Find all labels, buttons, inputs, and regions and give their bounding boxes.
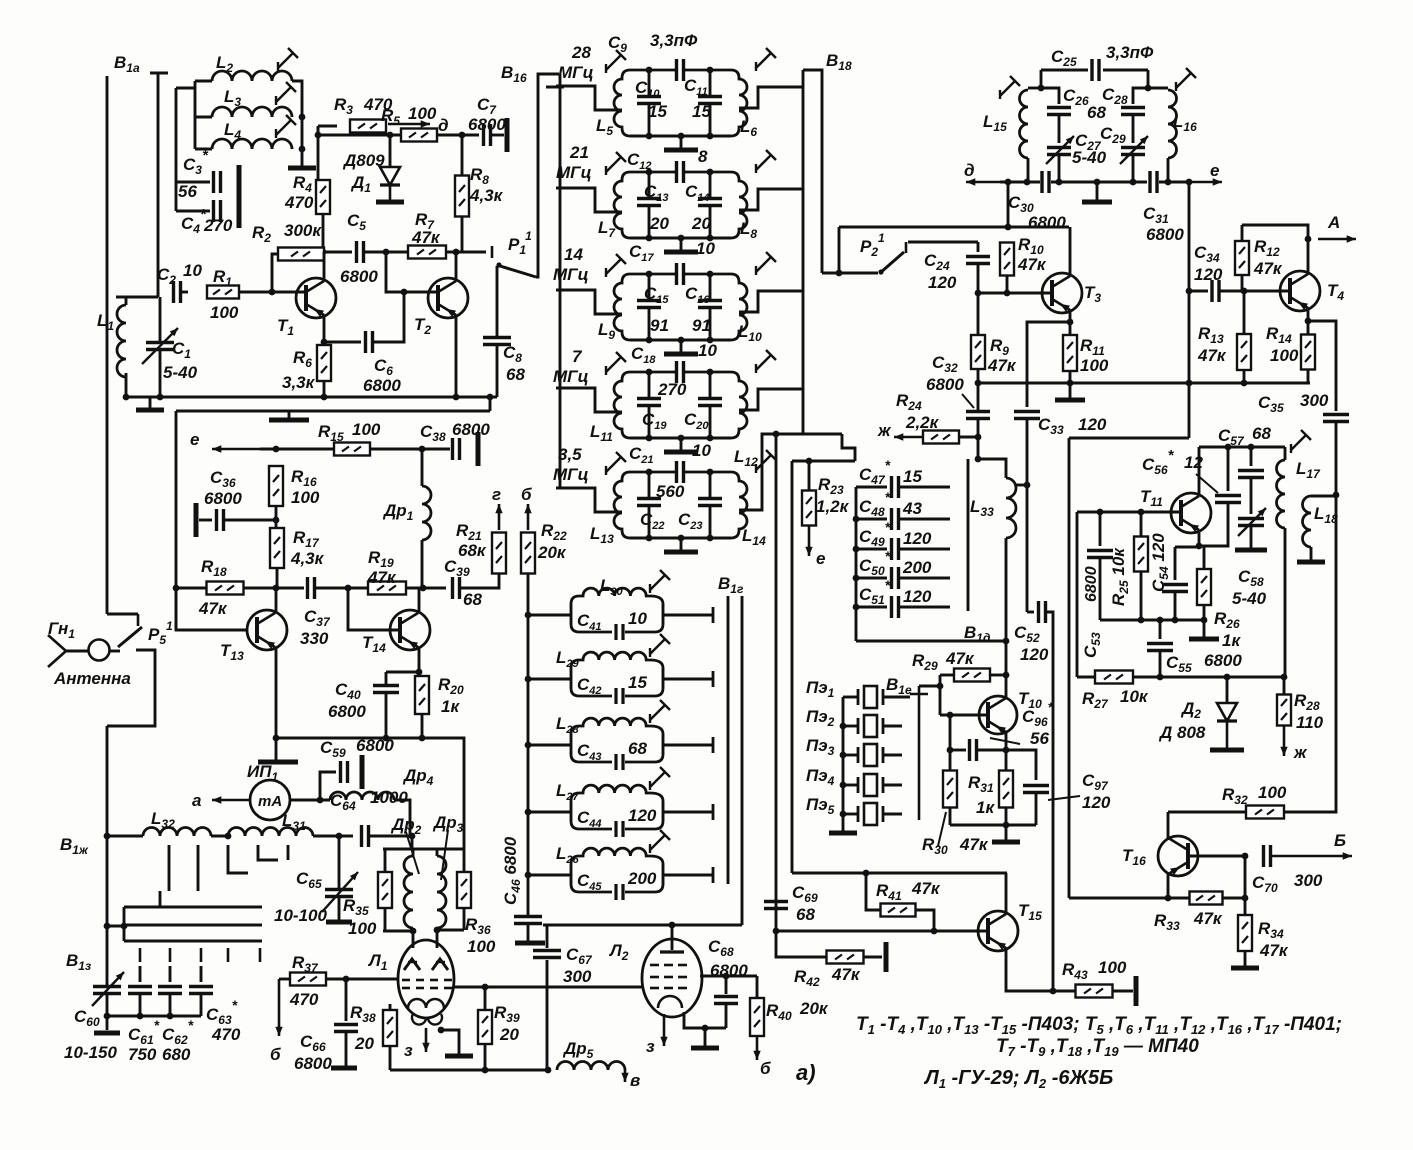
wire Dr4 right xyxy=(394,800,410,835)
label R36 100 xyxy=(465,915,496,956)
wire C8 top xyxy=(496,266,499,337)
svg-text:470: 470 xyxy=(211,1025,241,1044)
label R18 47k xyxy=(198,557,228,618)
capacitor C18 (top coupling) xyxy=(677,361,684,383)
resistor R23 xyxy=(802,491,816,526)
wire Pe4 left lead xyxy=(843,784,858,787)
inductor L11 (left coil of 7MHz tank) xyxy=(614,372,630,438)
wire C68 top lead xyxy=(725,976,728,994)
resistor R11 xyxy=(1063,335,1077,371)
capacitor C26 xyxy=(1047,108,1071,115)
label L1 tube xyxy=(367,951,388,973)
junction base-C70 xyxy=(1242,853,1249,860)
inductor L2 xyxy=(212,71,292,81)
capacitor C46 xyxy=(514,917,542,924)
label g xyxy=(492,485,501,504)
wire C34 row xyxy=(1189,290,1208,293)
wire C61 bottom xyxy=(139,994,142,1016)
wire C47 right lead xyxy=(899,486,950,489)
junction Pe bus 5 xyxy=(840,811,847,818)
junction C55-R27 xyxy=(1157,674,1164,681)
wire Pe3 left lead xyxy=(843,754,858,757)
wire C67 bottom xyxy=(546,960,549,1070)
value C48 43 xyxy=(902,499,922,518)
capacitor C30 xyxy=(1042,171,1049,193)
label C18 10 xyxy=(631,341,717,366)
junction C23 top xyxy=(707,469,714,476)
junction C55 bus xyxy=(1157,617,1164,624)
resistor R41 xyxy=(881,904,916,917)
wire grid bus right xyxy=(437,929,464,932)
wire T3 supply left drop xyxy=(838,227,841,273)
label C62 680 xyxy=(162,1017,194,1064)
resistor R9 xyxy=(971,335,985,369)
junction R33-R34 xyxy=(1242,895,1249,902)
label Pe1 xyxy=(806,678,835,700)
label T13 xyxy=(220,641,244,663)
wire Dr1 top lead xyxy=(421,449,424,486)
svg-text:3,3пФ: 3,3пФ xyxy=(650,31,698,50)
wire mid ground stub xyxy=(1096,182,1099,200)
junction bus T2e xyxy=(453,394,460,401)
label C31 6800 xyxy=(1143,204,1184,244)
trimmer mark L2 xyxy=(278,48,298,71)
trimmer arrow C29 xyxy=(1120,136,1148,164)
junction bank C48 xyxy=(853,516,860,523)
caption line 1 xyxy=(856,1014,1342,1037)
contact dash 1 xyxy=(139,948,142,962)
svg-text:28: 28 xyxy=(571,43,591,62)
resistor R22 xyxy=(521,533,535,574)
inductor L27 (trap coil) xyxy=(571,785,663,801)
wire R14 leads xyxy=(1307,321,1310,334)
tube L1 envelope xyxy=(398,940,454,1018)
capacitor C19 xyxy=(637,399,661,406)
inductor L18 xyxy=(1303,496,1312,547)
wire C24 bottom xyxy=(977,264,980,293)
junction bank C50 xyxy=(853,575,860,582)
ground tank 7MHz xyxy=(664,450,698,455)
label 3.5 MHz xyxy=(553,445,589,484)
junction L17-R28 xyxy=(1281,674,1288,681)
wire R9 top xyxy=(977,293,980,335)
trimmer mark L16 xyxy=(1176,68,1196,91)
transistor T16 xyxy=(1158,836,1198,876)
svg-text:6800: 6800 xyxy=(363,376,401,395)
resistor R14 xyxy=(1301,335,1315,370)
wire C53 bottom xyxy=(1099,558,1102,620)
svg-text:6800: 6800 xyxy=(468,115,506,134)
label Pe2 xyxy=(806,707,835,729)
junction bank C51 xyxy=(853,604,860,611)
ground under bus411 xyxy=(269,418,309,423)
wire C60 bottom xyxy=(106,994,109,1030)
svg-text:1000: 1000 xyxy=(370,788,408,807)
wire C32 bottom xyxy=(977,419,980,437)
capacitor C41 (trap cap) xyxy=(571,624,663,632)
ground C58 xyxy=(1235,548,1267,553)
svg-text:100: 100 xyxy=(1270,346,1299,365)
junction R8 top xyxy=(459,132,466,139)
wire L1 top xyxy=(116,296,158,299)
resistor R40 xyxy=(750,998,764,1036)
trimmer mark L15 xyxy=(1000,76,1020,99)
capacitor C57 xyxy=(1238,471,1264,478)
svg-text:120: 120 xyxy=(903,529,932,548)
junction L26 stub xyxy=(525,872,532,879)
label L7 xyxy=(598,218,616,240)
wire T15 emitter xyxy=(1006,948,1057,991)
wire R36 top xyxy=(463,849,466,872)
wire C54 row xyxy=(1175,546,1199,549)
wire tank 14MHz left stub xyxy=(556,290,622,314)
inductor L3 xyxy=(212,107,292,117)
wire C55 bottom xyxy=(1159,651,1162,677)
wire C10 lead xyxy=(648,70,651,96)
wire Pe4 right lead xyxy=(883,784,902,787)
wire C50 right lead xyxy=(899,577,950,580)
wire R12 bottom xyxy=(1241,275,1244,291)
label T15 xyxy=(1018,901,1042,923)
wire T4 feed drop xyxy=(1188,182,1191,438)
wire C49 left lead xyxy=(856,548,887,551)
wire R36 bottom xyxy=(463,908,466,930)
junction C22 top xyxy=(646,469,653,476)
label D808 xyxy=(1158,723,1206,742)
svg-text:100: 100 xyxy=(408,104,437,123)
junction T13 collector node xyxy=(273,585,280,592)
resistor R35 xyxy=(378,872,392,908)
label D809 xyxy=(342,151,385,170)
wire T16 base row xyxy=(1188,855,1245,858)
wire R25 bottom xyxy=(1140,571,1143,620)
arrow z cathode L2 xyxy=(660,1014,667,1046)
wire R43 right xyxy=(1113,990,1133,993)
svg-text:47к: 47к xyxy=(411,228,441,247)
wire C36 right lead xyxy=(224,519,276,522)
band filter tank 14MHz outline top edge xyxy=(630,273,731,276)
trimmer mark L17 xyxy=(1291,430,1311,453)
svg-text:МГц: МГц xyxy=(553,465,589,484)
label R37 470 xyxy=(289,953,319,1009)
capacitor C40 xyxy=(373,686,399,693)
wire Dr2 bottom xyxy=(412,928,415,948)
svg-text:120: 120 xyxy=(628,806,657,825)
capacitor C37 xyxy=(308,577,315,599)
wire R33 leads xyxy=(1168,897,1190,900)
wire L26 left edge xyxy=(570,864,573,884)
capacitor C5 xyxy=(357,241,364,263)
svg-text:г: г xyxy=(492,485,501,504)
capacitor C44 (trap cap) xyxy=(571,821,663,829)
label C16 xyxy=(685,284,710,306)
label L32 xyxy=(151,809,175,831)
junction R41 top xyxy=(863,870,870,877)
svg-text:47к: 47к xyxy=(198,599,228,618)
svg-text:Б: Б xyxy=(1334,831,1346,850)
inductor L9 (left coil of 14MHz tank) xyxy=(614,274,630,340)
wire R14 bottom xyxy=(1307,369,1310,383)
capacitor C42 (trap cap) xyxy=(571,688,663,696)
junction C40 bottom xyxy=(383,735,390,742)
wire C30 drop xyxy=(1007,182,1010,227)
label C70 300 xyxy=(1252,871,1323,895)
wire de bus 1 xyxy=(1000,181,1040,184)
junction R11 gnd xyxy=(1067,380,1074,387)
wire T2 base xyxy=(386,252,438,292)
wire L15 bottom lead xyxy=(1027,158,1030,182)
wire L3 lead xyxy=(195,116,212,119)
wire T10 emitter xyxy=(1005,732,1008,750)
svg-text:330: 330 xyxy=(300,629,329,648)
svg-text:300: 300 xyxy=(563,967,592,986)
resistor R8 xyxy=(455,176,469,217)
wire supply bus y411 xyxy=(176,410,490,413)
contact tick L29 xyxy=(712,671,715,687)
wire L30 left edge xyxy=(570,604,573,624)
value C15 91 xyxy=(650,316,669,335)
capacitor C27 trimmer xyxy=(1047,148,1071,155)
wire C1 bottom xyxy=(159,350,162,397)
ground R34 xyxy=(1231,966,1259,971)
feedthrough plate C3 xyxy=(237,165,242,199)
value C41 10 xyxy=(628,609,647,628)
junction Dr1 bottom node xyxy=(420,585,427,592)
wire 7MHz tank bottom edge xyxy=(630,437,731,440)
junction T2 base xyxy=(401,289,408,296)
label L5 xyxy=(596,116,613,138)
svg-text:б: б xyxy=(270,1045,281,1064)
label R4 xyxy=(293,173,312,195)
label L2 xyxy=(216,53,233,75)
contact tick L27 xyxy=(712,804,715,820)
wire R11 leads xyxy=(1069,322,1072,335)
label R38 xyxy=(350,1003,376,1025)
wire C11 bottom lead xyxy=(709,104,712,136)
label a) xyxy=(796,1060,816,1085)
junction x776 xyxy=(773,431,780,438)
wire T4 emitter xyxy=(1307,308,1310,321)
label C12 8 xyxy=(627,147,708,172)
capacitor C25 xyxy=(1092,59,1099,81)
svg-text:10к: 10к xyxy=(1120,687,1149,706)
value C11 15 xyxy=(692,102,711,121)
resistor R24 xyxy=(923,431,959,444)
junction L30 stub xyxy=(525,612,532,619)
svg-text:з: з xyxy=(646,1037,655,1056)
feedthrough plate C59 xyxy=(360,755,365,789)
junction L2 anode xyxy=(669,922,676,929)
ground T3 emitter xyxy=(1055,398,1085,403)
wire T2 collector xyxy=(455,252,458,281)
trimmer mark L13 xyxy=(606,452,626,475)
label C29 xyxy=(1100,124,1126,146)
ground tank 28MHz xyxy=(664,148,698,153)
wire de bus 2 xyxy=(1051,181,1147,184)
svg-text:56: 56 xyxy=(178,182,197,201)
svg-text:15: 15 xyxy=(692,102,711,121)
wire bank left bus xyxy=(855,487,858,641)
svg-text:47к: 47к xyxy=(1259,941,1289,960)
svg-text:Антенна: Антенна xyxy=(53,669,131,688)
label R3 xyxy=(334,95,353,117)
wire T13 emitter xyxy=(275,648,278,738)
junction bus-P2 xyxy=(836,270,843,277)
capacitor C62* xyxy=(158,987,182,994)
wire Pe1 right lead xyxy=(883,696,910,699)
wire R38 bottom xyxy=(389,1046,392,1070)
switch P1 xyxy=(456,246,536,277)
wire anode top wire xyxy=(543,924,742,927)
resistor R19 xyxy=(368,582,406,595)
wire L18 bottom xyxy=(1310,547,1313,560)
tube L2 envelope xyxy=(642,939,702,1017)
label zh under R28 xyxy=(1293,743,1308,762)
capacitor C68 xyxy=(714,997,738,1004)
label Pe4 xyxy=(806,766,835,788)
capacitor C51* xyxy=(892,596,899,618)
capacitor C11 xyxy=(698,97,722,104)
junction R24 node xyxy=(975,434,982,441)
junction T4 emitter xyxy=(1305,318,1312,325)
wire Pe1 left lead xyxy=(843,696,858,699)
wire L1 leads xyxy=(125,297,128,305)
wire C28-C29 xyxy=(1132,115,1135,143)
label L29 xyxy=(556,648,580,670)
label R20 1k xyxy=(438,675,464,716)
feedthrough R43 xyxy=(1134,976,1139,1006)
arrow to e (R15 row) xyxy=(212,445,260,452)
svg-text:ж: ж xyxy=(877,421,892,440)
transistor T4 xyxy=(1280,271,1320,311)
capacitor C59 xyxy=(341,761,348,783)
wire L1 bottom xyxy=(125,373,128,397)
svg-text:270: 270 xyxy=(657,380,687,399)
label C50 xyxy=(859,548,891,578)
wire B1a left bus vertical xyxy=(106,76,109,614)
wire L2 anode lead xyxy=(671,925,674,950)
wire tank 28MHz ground stub xyxy=(680,136,683,148)
arrow to b (R22) xyxy=(524,504,531,530)
wire T11 emitter xyxy=(1198,530,1201,546)
choke Dr4 xyxy=(330,792,394,800)
switch P5 xyxy=(118,614,142,647)
junction C62 rail xyxy=(167,1013,174,1020)
capacitor C49* xyxy=(892,538,899,560)
label R8 xyxy=(470,165,489,187)
arrow to b (R37) xyxy=(275,979,282,1036)
junction R16 top xyxy=(273,446,280,453)
junction L33 tap xyxy=(1024,482,1031,489)
capacitor C20 xyxy=(698,399,722,406)
wire R16 bottom xyxy=(275,506,278,528)
svg-text:6800: 6800 xyxy=(1146,225,1184,244)
ground C46 xyxy=(515,941,545,946)
value R5 100 xyxy=(408,104,437,123)
wire L26 left stub xyxy=(528,874,571,877)
wire R1 to T1 base xyxy=(239,291,306,294)
transistor T2 xyxy=(428,278,468,318)
wire C54 bottom xyxy=(1174,592,1177,620)
svg-text:20к: 20к xyxy=(799,999,829,1018)
wire tank right stub xyxy=(739,189,803,210)
wire L27 right edge xyxy=(662,801,665,821)
capacitor C14 xyxy=(698,199,722,206)
wire C29 bottom xyxy=(1132,155,1135,182)
svg-text:МГц: МГц xyxy=(558,63,594,82)
label C49 xyxy=(859,519,891,549)
svg-text:120: 120 xyxy=(1078,415,1107,434)
svg-text:Т7 -Т9 ,Т18 ,Т19 — МП40: Т7 -Т9 ,Т18 ,Т19 — МП40 xyxy=(996,1036,1199,1059)
value C1 5-40 xyxy=(163,363,198,382)
junction B1z xyxy=(104,923,111,930)
junction C34 feed xyxy=(1186,288,1193,295)
junction T4 feed xyxy=(1186,179,1193,186)
label C66 6800 xyxy=(294,1032,332,1073)
wire right drop xyxy=(1147,70,1150,88)
resistor R18 xyxy=(207,582,244,595)
capacitor C13 xyxy=(637,199,661,206)
wire C4 lead xyxy=(176,210,210,213)
junction C67 rail xyxy=(545,1067,552,1074)
ground twin tank xyxy=(1082,200,1112,205)
svg-text:100: 100 xyxy=(1080,356,1109,375)
wire P5 out contact xyxy=(107,650,155,726)
leader Dr3 xyxy=(441,830,448,880)
wire L30 right edge xyxy=(662,604,665,624)
arrow zh down xyxy=(1280,726,1287,756)
wire gnd stub xyxy=(1069,383,1072,398)
wire C35 bottom xyxy=(1335,422,1338,495)
trimmer mark L6 xyxy=(756,48,776,71)
wire C16 bottom lead xyxy=(709,308,712,340)
capacitor C66 xyxy=(334,1025,358,1032)
wire R30 bottom xyxy=(949,808,952,825)
svg-text:68: 68 xyxy=(1087,103,1106,122)
junction C19 top xyxy=(646,369,653,376)
label C15 xyxy=(644,284,669,306)
resistor R37 xyxy=(290,973,326,986)
label C33 120 xyxy=(1038,415,1107,437)
junction C30 drop xyxy=(1005,179,1012,186)
trimmer arrow C1 xyxy=(142,328,178,364)
junction C15 top xyxy=(646,271,653,278)
label 28 MHz xyxy=(558,43,594,82)
wire C14 lead xyxy=(709,172,712,198)
wire C26-C27 xyxy=(1058,115,1061,143)
junction L32/L31 xyxy=(225,833,232,840)
junction L28 stub xyxy=(525,742,532,749)
label Dr2 xyxy=(390,815,422,837)
node B1zh label xyxy=(60,835,89,857)
svg-text:1,2к: 1,2к xyxy=(816,497,850,516)
wire R34 bottom xyxy=(1244,951,1247,966)
label R22 20k xyxy=(537,521,567,562)
label C57 68 xyxy=(1218,424,1271,448)
label C32 6800 xyxy=(926,353,964,394)
label C58 5-40 xyxy=(1232,567,1267,608)
label T16 xyxy=(1122,846,1146,868)
svg-text:100: 100 xyxy=(1098,958,1127,977)
svg-text:20: 20 xyxy=(691,214,711,233)
label C10 xyxy=(635,78,660,100)
wire C8 bottom xyxy=(496,346,499,397)
tube L2 cathode xyxy=(658,996,682,1008)
svg-text:а: а xyxy=(192,791,201,810)
wire osc box left xyxy=(1068,438,1071,898)
junction L16 top xyxy=(1145,85,1152,92)
svg-text:14: 14 xyxy=(564,245,583,264)
